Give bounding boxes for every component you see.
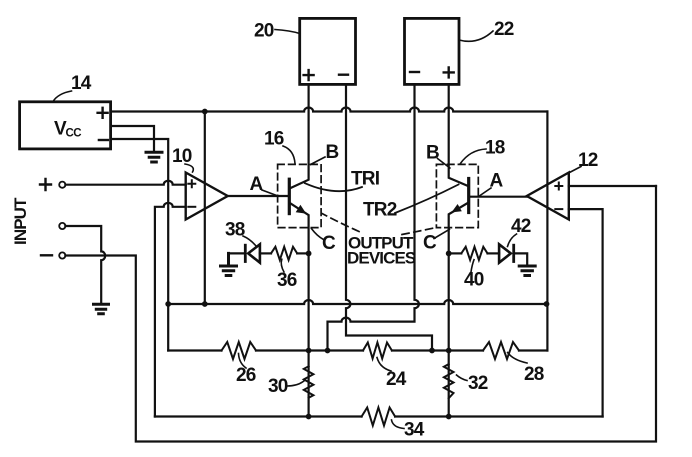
leader for A of TR1 [262,190,278,196]
svg-text:CC: CC [66,128,82,140]
svg-text:12: 12 [578,150,598,171]
node: R32 bottom on lower bus [446,414,452,420]
pin + of box 20 [304,70,314,80]
resistor R24 [363,343,392,359]
diode D42 [499,244,514,262]
pin - of box 22 [410,71,419,73]
wire: box 20 - crossover to resistor bus [346,85,432,351]
leader for B of TR2 [438,159,450,169]
wire: ground to diode D38 [229,252,245,254]
wire: resistor bus [168,349,547,351]
wire: diode D38 to resistor R36 [260,252,271,254]
transistor TR1 dashed outline box 16 [278,164,322,227]
pin + of U10 [188,180,195,187]
leader for A of TR2 [478,188,491,197]
leader for 40 [471,260,474,272]
node: line A at Vcc- vertical [165,301,171,307]
pin - of box 14 [99,139,108,141]
svg-text:42: 42 [511,216,531,237]
label OUTPUT DEVICES [347,234,416,268]
op-amp U10 [186,173,228,220]
leader for B of TR1 [311,157,326,165]
pin - of box 20 [339,73,348,75]
ground for diode 38 [221,253,237,275]
leader for 16 [283,146,295,164]
leader for 36 [281,259,284,272]
wire: U12 inverting input feedback [569,209,603,416]
svg-text:INPUT: INPUT [11,197,30,245]
input terminal - [59,252,65,258]
svg-text:16: 16 [264,129,284,150]
svg-text:22: 22 [494,19,514,40]
wire: TR2 emitter [449,203,467,417]
leader for 22 [459,31,493,41]
label - of input [41,254,52,256]
resistor R36 [271,247,297,260]
wire: Vcc- to common rail vertical [111,139,169,351]
wire: op-amp U10 supply drop [204,112,206,305]
leader for 24 [377,358,391,372]
leader for 14 [53,91,72,102]
ground below Vcc box [146,152,162,162]
resistor R40 [461,247,487,260]
arrowhead TR1 emitter [296,205,307,214]
transistor Q TR2 base bar [467,179,470,213]
wire: U10 inverting input feedback [155,203,186,417]
svg-text:C: C [423,233,437,254]
wire: resistor R40 to diode D42 [488,252,500,254]
wire: resistor R36 to TR1 emitter [297,252,308,254]
ground for diode 42 [519,266,535,276]
dashed leader from OUTPUT DEVICES to TR2 box [402,228,436,235]
wire: input + to op-amp U10 [65,181,185,185]
pin - of U12 [555,208,562,210]
ground below input [94,304,109,314]
svg-text:24: 24 [386,369,407,390]
leader for TRI [305,183,362,191]
node: TR2 emitter on resistor bus [446,348,452,354]
wire: U12 non-inverting input from bottom feedback [569,185,656,187]
node: R40 junction on TR2 emitter [446,251,452,257]
svg-text:32: 32 [468,373,488,394]
wire: TR1 emitter [291,203,309,417]
svg-text:36: 36 [277,270,297,291]
wire: input - down and along bottom to right feedback [65,186,656,442]
wire: U12 output to TR2 base [469,196,527,198]
wire: TR2 collector from box 22 + [449,85,467,186]
node: bus junction to op-amp U10 supply [202,109,208,115]
svg-text:18: 18 [485,138,505,159]
battery box 20 [300,18,356,84]
svg-text:B: B [326,142,339,163]
leader for 10 [185,164,193,172]
input terminal mid [59,223,65,229]
leader for 28 [508,353,527,364]
svg-text:40: 40 [464,270,484,291]
svg-text:C: C [322,233,336,254]
wire: U10 output to TR1 base [228,195,290,197]
leader for 20 [275,30,300,34]
wire: TR1 collector from box 20 + [291,85,309,189]
node: box20- drop on resistor bus [429,348,435,354]
wire: lower feedback bus [155,415,603,417]
leader for 42 [508,234,517,247]
svg-text:TR2: TR2 [363,200,397,221]
op-amp U12 [527,173,569,220]
wire: Vcc- upper tap to ground [111,126,154,151]
resistor R26 [222,342,257,359]
wire: diode D42 to ground [514,253,528,264]
resistor R34 [362,408,396,426]
wire: op-amp U12 supply drop [546,112,548,351]
transistor TR2 dashed outline box 18 [436,164,478,227]
leader for 32 [457,375,468,381]
battery box 22 [405,18,460,84]
svg-text:10: 10 [172,146,192,167]
leader for 30 [287,381,305,387]
svg-text:30: 30 [268,376,288,397]
wire: Vcc+ bus [111,108,548,112]
svg-text:14: 14 [71,73,92,94]
node: box22- drop on resistor bus [325,348,331,354]
svg-text:TRI: TRI [351,169,380,190]
transistor Q TR1 base bar [288,179,291,213]
label Vcc inside box 14 [54,119,81,140]
leader for 12 [570,167,582,173]
wire: input mid to ground [65,226,105,303]
input terminal + [59,182,65,188]
leader for 26 [239,354,247,369]
svg-text:38: 38 [225,220,245,241]
wire: common line A (Vcc- rail) [168,300,546,304]
leader for 34 [392,420,405,429]
Vcc supply box 14 [20,102,111,149]
dashed leader from OUTPUT DEVICES to TR1 box [322,214,359,232]
svg-text:34: 34 [404,420,425,441]
node: R30 bottom on lower bus [306,414,312,420]
node: line A at U12 supply [544,301,550,307]
diode D38 [245,244,260,262]
leader for C of TR2 [434,229,449,238]
leader for 38 [243,236,256,246]
svg-text:B: B [426,143,439,164]
leader for C of TR1 [311,229,323,240]
label + of input [40,179,51,190]
arrowhead TR2 emitter [452,204,462,212]
svg-text:20: 20 [254,21,274,42]
svg-text:DEVICES: DEVICES [347,249,416,268]
svg-text:A: A [250,174,264,195]
pin + of box 14 [98,108,108,118]
leader for TR2 [395,185,459,214]
node: line A at U10 supply [202,301,208,307]
node: R36 junction on TR1 emitter [306,251,312,257]
pin + of U12 [555,183,562,190]
leader for 18 [460,149,486,164]
wire: box 22 - crossover to resistor bus [328,85,419,351]
resistor R30 [304,366,314,398]
pin - of U10 [188,206,195,208]
resistor R28 [483,342,519,359]
pin + of box 22 [444,67,454,77]
svg-text:28: 28 [524,364,544,385]
resistor R32 [444,364,454,398]
wire: TR2 emitter to resistor R40 [449,252,462,254]
node: TR1 emitter on resistor bus [306,348,312,354]
